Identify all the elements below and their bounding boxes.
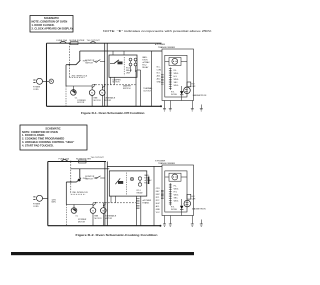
wire: left vertical [46, 43, 48, 106]
svg-text:DIODE: DIODE [171, 94, 178, 96]
svg-text:MOTOR: MOTOR [113, 82, 121, 84]
wire: left branch down 2 [65, 182, 67, 205]
relay box bottom drops [110, 77, 114, 85]
svg-text:Figure D-2. Oven Schematic-Coo: Figure D-2. Oven Schematic-Cooking Condi… [76, 233, 158, 237]
ground symbols [163, 109, 166, 111]
primary interlock switch 2 (closed) [66, 169, 88, 182]
magnetron 2 [184, 200, 206, 210]
vertical pair feed [104, 43, 106, 106]
svg-text:MOTOR: MOTOR [94, 100, 102, 102]
svg-text:RELAY: RELAY [126, 69, 133, 72]
svg-text:2. COOKING TIME PROGRAMMED: 2. COOKING TIME PROGRAMMED [22, 137, 64, 141]
wire A: pair to right section [107, 165, 162, 167]
svg-text:AC1: AC1 [157, 75, 161, 78]
relay unit box [109, 51, 137, 77]
control wires 2 [153, 166, 155, 225]
svg-text:RY1: RY1 [156, 197, 160, 199]
svg-text:TRANSFORMER: TRANSFORMER [158, 162, 175, 165]
svg-text:DIODE: DIODE [171, 209, 178, 211]
svg-text:2ND. INTERLOCK: 2ND. INTERLOCK [72, 192, 88, 194]
svg-text:★POWER: ★POWER [155, 159, 166, 162]
svg-text:SWITCH: SWITCH [85, 62, 93, 64]
ground symbols 2 [163, 224, 166, 226]
wires relay to primary [136, 70, 141, 106]
HV inner box [165, 55, 187, 97]
HV capacitor 2 [187, 194, 196, 200]
svg-text:SWITCH: SWITCH [123, 88, 131, 90]
vertical pair feed 2 [104, 162, 106, 226]
svg-text:H.V.: H.V. [174, 192, 178, 194]
note box 1 (off-condition notes) [30, 16, 74, 33]
svg-text:Figure D-1. Oven Schematic-Off: Figure D-1. Oven Schematic-Off Condition [81, 111, 145, 115]
wire: top bus 2 [48, 161, 106, 163]
svg-text:SEC.: SEC. [174, 82, 179, 84]
svg-text:MOTOR: MOTOR [104, 100, 112, 102]
svg-text:MOTOR: MOTOR [77, 102, 85, 104]
svg-text:★POWER: ★POWER [155, 43, 166, 46]
svg-text:SCHEMATIC: SCHEMATIC [44, 16, 59, 20]
svg-text:CORD: CORD [33, 206, 39, 208]
turntable motor [100, 85, 116, 107]
wires relay to primary 2 [136, 196, 141, 226]
control wires [150, 51, 152, 106]
svg-text:VCC: VCC [156, 212, 161, 214]
svg-text:WDG.: WDG. [174, 79, 180, 81]
svg-text:NOTE: “★” indicates components: NOTE: “★” indicates components with pote… [103, 29, 212, 33]
noise filter 2 [76, 158, 91, 163]
svg-text:H.V.: H.V. [174, 76, 178, 78]
svg-text:★TRIAC: ★TRIAC [142, 61, 150, 64]
svg-text:RY-2: RY-2 [144, 183, 148, 185]
HV diode [171, 86, 184, 101]
svg-text:ACL: ACL [156, 205, 160, 208]
dashed assembly boundary [92, 84, 135, 86]
wire: top bus [47, 42, 162, 44]
svg-text:MAGNETRON: MAGNETRON [193, 94, 207, 97]
connector ticks on box edge [161, 75, 164, 85]
svg-text:GND: GND [156, 209, 161, 211]
HV capacitor [187, 82, 196, 88]
HV inner box 2 [165, 171, 187, 212]
fan motor 2 [90, 203, 102, 226]
svg-text:RY2: RY2 [156, 200, 160, 202]
svg-text:CORD: CORD [33, 89, 39, 91]
junction at bus right end [160, 105, 162, 107]
primary winding hatch 2 [137, 199, 140, 209]
svg-text:2ND. INTERLOCK: 2ND. INTERLOCK [72, 76, 88, 78]
svg-text:CAP.: CAP. [191, 85, 196, 88]
svg-text:CPU: CPU [156, 188, 161, 190]
svg-text:MOTOR: MOTOR [78, 221, 86, 223]
svg-text:SEC.: SEC. [174, 198, 179, 200]
svg-text:AC2: AC2 [157, 78, 161, 81]
power cord plug 2 [33, 195, 57, 208]
fan motor [89, 85, 101, 107]
svg-text:RELAY: RELAY [137, 192, 144, 195]
svg-text:N.O.: N.O. [157, 73, 161, 75]
svg-text:WDG.: WDG. [174, 201, 180, 203]
svg-text:TRANSFORMER: TRANSFORMER [158, 46, 175, 49]
svg-text:COM: COM [157, 70, 162, 72]
svg-text:RY-1: RY-1 [126, 67, 130, 69]
svg-text:1. DOOR CLOSED.: 1. DOOR CLOSED. [32, 23, 55, 27]
svg-text:1. DOOR CLOSED.: 1. DOOR CLOSED. [22, 133, 45, 137]
svg-text:3. VARIABLE COOKING CONTROL “H: 3. VARIABLE COOKING CONTROL “HIGH” [22, 140, 75, 144]
power cord plug [33, 78, 49, 91]
svg-text:NOTE: CONDITION OF OVEN: NOTE: CONDITION OF OVEN [32, 20, 68, 24]
svg-text:WDG.: WDG. [174, 73, 180, 75]
svg-text:MAGNETRON: MAGNETRON [192, 208, 206, 211]
svg-text:WDG.: WDG. [174, 189, 180, 191]
oven lamp 2 [66, 205, 93, 218]
svg-text:NOTE: CONDITION OF OVEN: NOTE: CONDITION OF OVEN [22, 130, 58, 134]
svg-text:FIL.: FIL. [174, 70, 178, 72]
magnetron [184, 87, 207, 97]
relay box 2 bottom drops [111, 196, 116, 203]
primary interlock switch [66, 51, 88, 65]
svg-text:MOTOR: MOTOR [95, 218, 103, 220]
thermal cutout on bus [87, 40, 101, 43]
svg-text:TH. CUTOUT: TH. CUTOUT [91, 157, 105, 159]
fuse F1 [57, 39, 68, 43]
svg-text:WDG.: WDG. [174, 195, 180, 197]
svg-text:CAP.: CAP. [191, 197, 196, 200]
note box 2 (cooking-condition notes) [20, 125, 87, 150]
svg-text:WDG.: WDG. [174, 85, 180, 87]
junction at bus 2 right end [159, 225, 161, 227]
svg-text:60Hz: 60Hz [52, 202, 56, 204]
dashed assembly boundary 2 [93, 202, 136, 204]
ground stubs [165, 101, 202, 109]
svg-text:N.C.: N.C. [157, 67, 161, 69]
svg-text:OL: OL [75, 216, 78, 218]
wire: bottom bus [47, 105, 162, 107]
wire B: switch to relay box [71, 168, 110, 170]
secondary winding 2 [169, 183, 172, 205]
connector ticks on box edge 2 [161, 191, 164, 199]
svg-text:SWITCH: SWITCH [85, 179, 93, 181]
wire: bottom bus 2 [48, 225, 161, 227]
svg-text:CUTOUT: CUTOUT [143, 90, 152, 92]
wire: upper feed to right section [80, 50, 162, 52]
svg-text:SCHEMATIC: SCHEMATIC [45, 126, 60, 130]
HV diode 2 [171, 199, 184, 216]
svg-text:FIL.: FIL. [174, 186, 178, 188]
power transformer [165, 58, 187, 66]
bottom scan bar [11, 252, 194, 255]
HV outer box 2 [162, 165, 194, 216]
svg-text:RELAY: RELAY [142, 66, 149, 69]
oven lamp [66, 86, 92, 100]
svg-text:TRANS.: TRANS. [142, 201, 149, 204]
wire: left branch down [65, 65, 67, 86]
svg-text:4. START PAD TOUCHED.: 4. START PAD TOUCHED. [22, 143, 54, 147]
power transformer 2 [165, 173, 187, 181]
secondary winding [169, 68, 172, 91]
relay unit box 2 [109, 171, 147, 196]
ground stubs 2 [165, 216, 202, 224]
dashed boundary vertical 2 [70, 162, 72, 195]
HV outer box [162, 49, 194, 101]
noise suppression coil [49, 79, 53, 83]
dashed door boundary vertical (upper) [68, 43, 70, 77]
wire: left vertical 2 [47, 162, 49, 226]
turntable motor 2 [101, 203, 117, 226]
svg-text:GND: GND [157, 82, 162, 84]
noise filter [70, 40, 85, 45]
svg-text:2. CLOCK APPEARS ON DISPLAY.: 2. CLOCK APPEARS ON DISPLAY. [32, 27, 74, 31]
fuse 2 [59, 157, 70, 161]
svg-text:MOTOR: MOTOR [105, 218, 113, 220]
